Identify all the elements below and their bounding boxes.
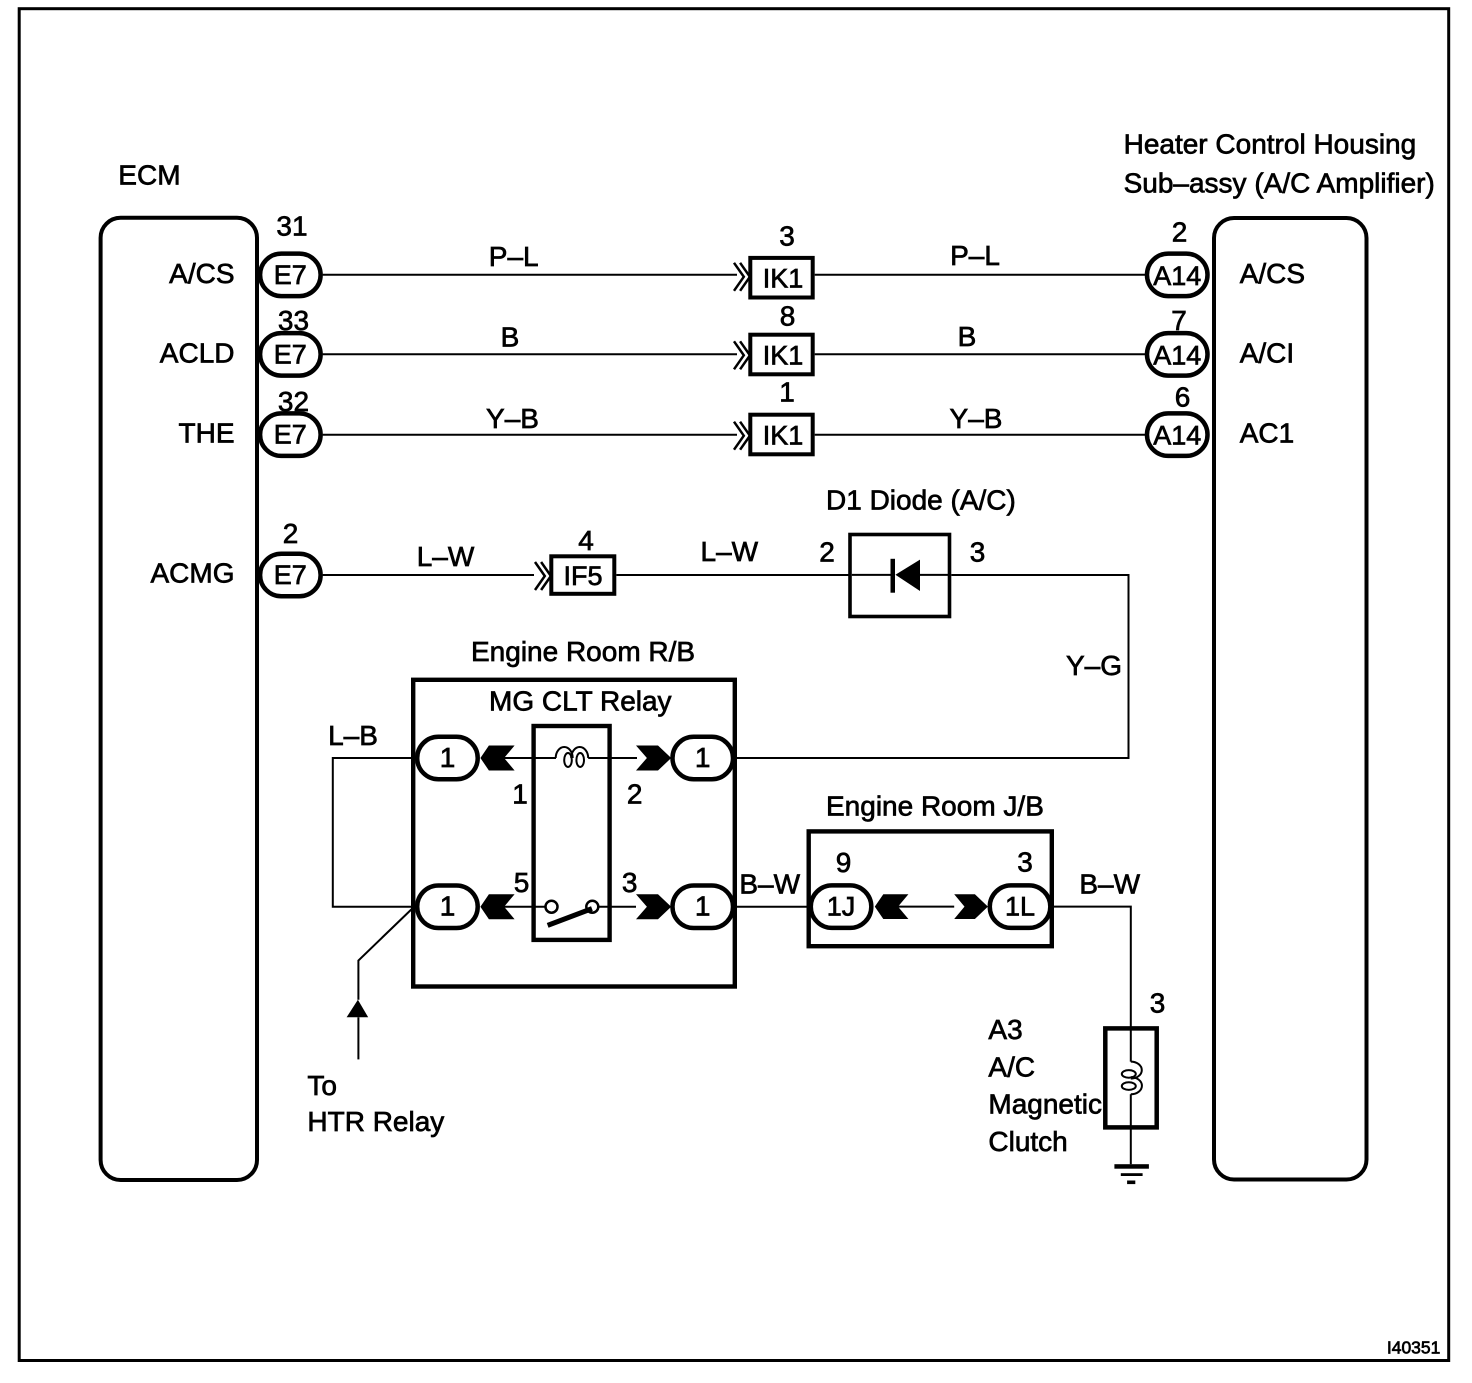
- wire B ECM to IK1: [323, 322, 737, 355]
- svg-text:3: 3: [622, 867, 638, 898]
- wire L-W ECM to IF5: [323, 541, 534, 575]
- svg-text:2: 2: [627, 779, 643, 810]
- svg-text:3: 3: [1017, 847, 1033, 878]
- svg-text:7: 7: [1171, 305, 1187, 336]
- A/C amplifier U2 block: [1124, 128, 1435, 1179]
- junction connector IF5 pin 4: [535, 525, 614, 594]
- svg-text:4: 4: [578, 525, 594, 556]
- arrow out of relay pin 3: [636, 894, 671, 919]
- arrow out to 1L: [954, 894, 988, 919]
- svg-text:P–L: P–L: [489, 241, 539, 272]
- svg-text:2: 2: [283, 518, 299, 549]
- ECM U1 block: [101, 159, 257, 1180]
- svg-text:HTR Relay: HTR Relay: [307, 1106, 444, 1137]
- svg-text:E7: E7: [274, 420, 307, 450]
- wire P-L ECM to IK1: [323, 241, 737, 275]
- svg-text:E7: E7: [274, 339, 307, 369]
- wire clutch to ground: [1130, 1094, 1132, 1164]
- svg-text:ACMG: ACMG: [151, 558, 235, 589]
- wire L-B loop: [328, 720, 416, 907]
- R/B cavity 1 top-left: [417, 737, 478, 780]
- arrow into 1J: [875, 894, 909, 919]
- svg-text:I40351: I40351: [1387, 1338, 1441, 1358]
- to HTR relay branch: [307, 909, 444, 1137]
- svg-text:D1 Diode (A/C): D1 Diode (A/C): [826, 485, 1016, 516]
- svg-text:32: 32: [278, 386, 309, 417]
- junction connector IK1 pin 8: [734, 300, 813, 374]
- J/B cavity 1J pin 9: [811, 847, 872, 928]
- wire P-L IK1 to A14: [815, 240, 1145, 275]
- svg-text:3: 3: [1150, 988, 1166, 1019]
- svg-text:L–B: L–B: [328, 720, 378, 751]
- svg-text:IK1: IK1: [763, 264, 804, 294]
- diode D1: [826, 485, 1016, 617]
- svg-text:L–W: L–W: [701, 536, 759, 567]
- svg-text:Magnetic: Magnetic: [988, 1089, 1102, 1120]
- svg-text:IK1: IK1: [763, 341, 804, 371]
- R/B cavity 1 bottom-right: [673, 886, 734, 929]
- svg-text:B: B: [501, 322, 520, 353]
- connector A14 pin 6: [1147, 382, 1208, 456]
- svg-text:A/CI: A/CI: [1240, 337, 1294, 368]
- svg-text:1: 1: [695, 891, 711, 922]
- svg-text:1: 1: [440, 891, 456, 922]
- svg-text:2: 2: [1172, 216, 1188, 247]
- svg-text:To: To: [307, 1070, 337, 1101]
- R/B cavity 1 top-right: [673, 737, 734, 780]
- wire Y-B ECM to IK1: [323, 403, 737, 435]
- relay switch: [504, 901, 636, 925]
- connector E7 pin 33: [260, 305, 321, 376]
- svg-text:A/C: A/C: [988, 1051, 1035, 1082]
- wire L-W IF5 to D1: [616, 536, 850, 575]
- svg-text:6: 6: [1175, 382, 1191, 413]
- svg-text:A/CS: A/CS: [1240, 258, 1305, 289]
- svg-text:1J: 1J: [827, 892, 856, 922]
- svg-text:3: 3: [779, 220, 795, 251]
- Engine Room J/B block: [809, 791, 1052, 947]
- svg-text:31: 31: [276, 211, 307, 242]
- svg-text:1: 1: [512, 779, 528, 810]
- A/C magnetic clutch A3: [988, 1014, 1156, 1157]
- svg-text:5: 5: [514, 867, 530, 898]
- connector A14 pin 2: [1147, 216, 1208, 296]
- svg-text:Y–G: Y–G: [1066, 650, 1122, 681]
- svg-text:1: 1: [440, 742, 456, 773]
- connector E7 pin 2: [260, 518, 321, 596]
- connector E7 pin 32: [260, 386, 321, 456]
- junction connector IK1 pin 3: [734, 220, 813, 297]
- wire B IK1 to A14: [815, 321, 1145, 354]
- arrow into relay pin 5: [480, 894, 514, 919]
- svg-text:THE: THE: [179, 418, 235, 449]
- svg-text:Engine Room J/B: Engine Room J/B: [826, 791, 1044, 822]
- svg-text:Y–B: Y–B: [950, 403, 1003, 434]
- svg-text:3: 3: [970, 537, 986, 568]
- svg-text:B: B: [958, 321, 977, 352]
- svg-text:2: 2: [819, 537, 835, 568]
- svg-text:A14: A14: [1153, 340, 1201, 370]
- svg-text:AC1: AC1: [1240, 418, 1294, 449]
- svg-text:B–W: B–W: [739, 869, 800, 900]
- svg-text:ACLD: ACLD: [160, 337, 235, 368]
- svg-text:1: 1: [695, 742, 711, 773]
- R/B cavity 1 bottom-left: [417, 886, 478, 929]
- connector A14 pin 7: [1147, 305, 1208, 376]
- svg-text:ECM: ECM: [118, 159, 180, 190]
- svg-text:Clutch: Clutch: [988, 1126, 1067, 1157]
- svg-text:MG CLT Relay: MG CLT Relay: [489, 686, 672, 717]
- svg-text:1L: 1L: [1005, 892, 1035, 922]
- svg-text:Engine Room R/B: Engine Room R/B: [471, 636, 695, 667]
- arrow into relay pin 1: [480, 746, 514, 771]
- arrow out of relay pin 2: [636, 746, 671, 771]
- svg-text:33: 33: [278, 305, 309, 336]
- svg-text:A14: A14: [1153, 421, 1201, 451]
- svg-text:8: 8: [780, 300, 796, 331]
- svg-text:IK1: IK1: [763, 421, 804, 451]
- svg-text:Y–B: Y–B: [486, 403, 539, 434]
- svg-text:E7: E7: [274, 260, 307, 290]
- wire inside J/B: [898, 906, 954, 908]
- svg-text:B–W: B–W: [1079, 869, 1140, 900]
- J/B cavity 1L pin 3: [990, 847, 1051, 928]
- relay coil: [534, 747, 610, 767]
- svg-text:E7: E7: [274, 560, 307, 590]
- wire relay pin1 stub: [504, 757, 534, 759]
- svg-text:Heater Control Housing: Heater Control Housing: [1124, 128, 1417, 159]
- svg-text:Sub–assy (A/C Amplifier): Sub–assy (A/C Amplifier): [1124, 168, 1435, 199]
- wire B-W 1L to clutch: [1051, 869, 1141, 1062]
- svg-text:P–L: P–L: [950, 240, 1000, 271]
- wire relay pin2 stub: [610, 757, 637, 759]
- svg-text:A3: A3: [988, 1014, 1022, 1045]
- wire B-W relay to J/B: [735, 869, 809, 907]
- relay MG CLT: [489, 686, 672, 940]
- svg-text:IF5: IF5: [563, 561, 602, 591]
- svg-text:L–W: L–W: [417, 541, 475, 572]
- wire Y-G D1 to relay: [735, 575, 1129, 758]
- ground: [1114, 1164, 1149, 1184]
- Engine Room R/B block: [413, 636, 735, 987]
- wire Y-B IK1 to A14: [815, 403, 1145, 435]
- junction connector IK1 pin 1: [734, 377, 813, 455]
- svg-text:9: 9: [836, 847, 852, 878]
- svg-text:A/CS: A/CS: [169, 258, 234, 289]
- connector E7 pin 31: [260, 211, 321, 297]
- svg-text:A14: A14: [1153, 261, 1201, 291]
- svg-text:1: 1: [779, 377, 795, 408]
